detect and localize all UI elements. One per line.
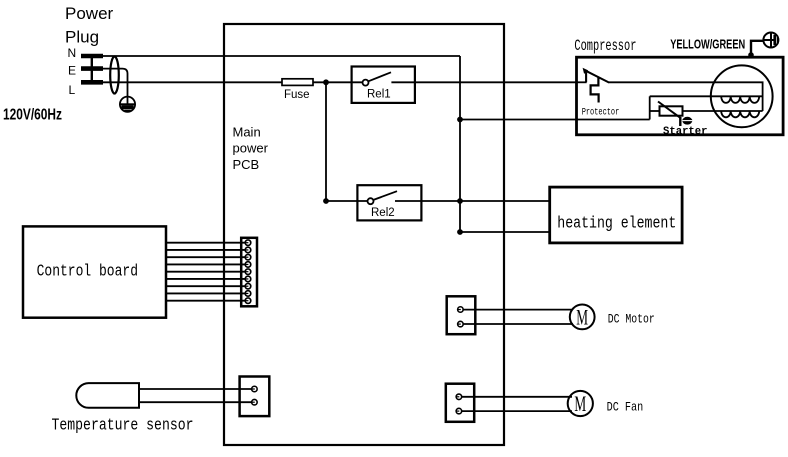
starter PTC box [660, 106, 683, 115]
junction dot neutral bottom [457, 229, 463, 235]
DC motor connector CN3 [447, 296, 476, 334]
junction dot neutral/compressor [457, 117, 463, 123]
DC motor wires [463, 309, 573, 311]
protector blade with arrow [585, 70, 610, 82]
CN2 pins [252, 386, 258, 405]
wire E to ground [103, 69, 128, 97]
relay Rel1 contact circle [363, 80, 369, 86]
svg-text:M: M [576, 304, 588, 329]
wire N [103, 55, 460, 57]
power plug stem [91, 56, 93, 82]
wire neutral to heating element bottom [460, 231, 550, 233]
earth ground G1 [120, 97, 135, 112]
svg-text:Rel2: Rel2 [371, 207, 395, 219]
label Power Plug [65, 4, 114, 47]
svg-text:DC Fan: DC Fan [607, 400, 644, 415]
svg-text:M: M [574, 391, 586, 416]
relay Rel2 blade [373, 191, 397, 200]
winding 2 humps [721, 111, 759, 117]
neutral bus vertical [459, 56, 461, 232]
svg-text:120V/60Hz: 120V/60Hz [3, 107, 62, 124]
CN3 pins [458, 307, 464, 327]
wire L to fuse [103, 81, 282, 83]
wire compressor entry to protector [577, 81, 587, 83]
svg-text:Power: Power [65, 4, 114, 23]
sensor wires [139, 388, 251, 390]
protector arrowhead [583, 68, 589, 74]
node A junction dot [323, 79, 329, 85]
svg-text:N: N [68, 46, 77, 60]
wire node A down to Rel2 [326, 82, 368, 201]
heating element box [550, 187, 682, 243]
power plug pin E [81, 66, 103, 71]
protector pivot stub [585, 72, 587, 82]
DC fan M2 circle [568, 391, 593, 416]
svg-text:Rel1: Rel1 [367, 88, 391, 100]
svg-text:Fuse: Fuse [284, 89, 310, 101]
main power PCB box [224, 24, 504, 445]
fuse F1 [282, 79, 313, 86]
compressor motor circle [711, 65, 773, 127]
wire fuse to node A [313, 81, 363, 83]
node B junction dot [323, 198, 329, 204]
power plug pin N [81, 54, 103, 59]
svg-text:Protector: Protector [582, 108, 620, 119]
label Main power PCB [233, 124, 269, 172]
relay Rel2 box [357, 185, 421, 220]
svg-text:Compressor: Compressor [574, 37, 636, 55]
svg-text:power: power [233, 141, 269, 156]
earth ground G2 [763, 33, 778, 48]
wire neutral to compressor [460, 119, 650, 121]
DC motor M1 circle [570, 305, 595, 330]
wire starter right / winding 2 line [683, 110, 763, 112]
svg-text:E: E [68, 64, 76, 78]
wire starter left [650, 110, 660, 112]
protector heater staircase [591, 77, 599, 102]
plug outline ellipse [110, 57, 119, 94]
winding 1 line [650, 95, 763, 97]
temperature sensor bulb [76, 383, 139, 408]
ribbon connector CN1 [241, 238, 257, 306]
starter diagonal [658, 102, 681, 119]
junction dot ground drop [748, 52, 754, 58]
control board box [23, 226, 166, 317]
svg-text:YELLOW/GREEN: YELLOW/GREEN [670, 37, 745, 52]
svg-text:Starter: Starter [663, 126, 708, 138]
CN4 pins [456, 394, 462, 414]
compressor box [577, 57, 784, 135]
svg-text:PCB: PCB [233, 157, 260, 172]
svg-text:L: L [69, 83, 76, 97]
wire protector to winding common [609, 82, 763, 111]
CN1 pins [245, 240, 251, 304]
relay Rel1 box [352, 67, 415, 103]
svg-text:Temperature sensor: Temperature sensor [52, 417, 194, 436]
sensor connector CN2 [240, 377, 270, 417]
wire start vertical [649, 96, 651, 119]
junction dot neutral/Rel2 [457, 198, 463, 204]
winding 1 humps [721, 96, 759, 103]
svg-text:DC Motor: DC Motor [608, 311, 655, 326]
svg-text:heating element: heating element [557, 215, 676, 234]
relay Rel2 contact circle [368, 198, 374, 204]
svg-text:Plug: Plug [65, 28, 99, 47]
wire ground G2 to compressor box [751, 41, 763, 56]
DC fan connector CN4 [446, 384, 474, 422]
ribbon wires [166, 243, 248, 301]
wire Rel2 to heating element [395, 200, 550, 202]
DC fan wires [462, 396, 572, 398]
power plug pin L [81, 80, 103, 85]
wire Rel1 to compressor [391, 81, 576, 83]
starter terminal phi [680, 117, 692, 126]
svg-text:Control board: Control board [37, 262, 138, 281]
relay Rel1 blade [368, 72, 391, 81]
svg-text:Main: Main [233, 124, 261, 139]
